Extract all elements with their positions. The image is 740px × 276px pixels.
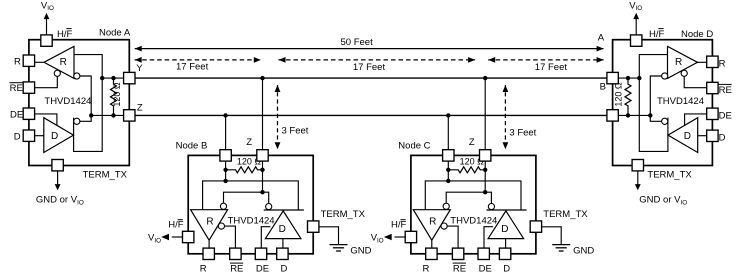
junction net2 (node C) [483, 190, 487, 194]
pin bus Z of U2 (node B) [257, 150, 268, 161]
bubble driver inverted output (node D) [662, 118, 668, 124]
pin TERM_TX of U4 (node D) [632, 160, 643, 171]
svg-text:TERM_TX: TERM_TX [321, 209, 366, 220]
pin D of U4 (node D) [707, 130, 718, 141]
wire internal net 2 to receiver inverting input and driver inverted output (node B) [224, 192, 269, 203]
wire bus pin 1 down to internal net (node C) [447, 161, 449, 181]
pin DE of U4 (node D) [707, 108, 718, 119]
pin D of U1 (node A) [23, 130, 34, 141]
junction resistor bottom on B net (node D) [626, 113, 630, 117]
svg-text:D: D [503, 264, 510, 275]
wire receiver enable to RE pin (node B) [225, 226, 236, 248]
svg-text:17 Feet: 17 Feet [353, 62, 386, 73]
svg-text:D: D [281, 264, 288, 275]
pin TERM_TX of U1 (node A) [52, 160, 63, 171]
junction net2 (node B) [260, 190, 264, 194]
power V_IO arrow into H/F pin (node D) [629, 0, 642, 35]
junction internal B net (node D) [648, 113, 652, 117]
svg-text:R: R [14, 56, 21, 67]
svg-text:TERM_TX: TERM_TX [647, 169, 692, 180]
svg-text:B: B [600, 82, 606, 93]
pin TERM_TX of U3 (node C) [530, 221, 541, 232]
svg-text:R: R [206, 216, 213, 227]
pin RE of U4 (node D) [707, 82, 718, 93]
node D THVD1424 transceiver U4 outline [613, 40, 713, 166]
svg-text:THVD1424: THVD1424 [228, 216, 275, 227]
pin R of U4 (node D) [707, 56, 718, 67]
svg-text:THVD1424: THVD1424 [44, 96, 91, 107]
power V_IO arrow into H/F pin (node B) [148, 232, 183, 244]
svg-text:THVD1424: THVD1424 [450, 216, 497, 227]
junction net1 (node C) [446, 179, 450, 183]
svg-text:TERM_TX: TERM_TX [83, 169, 128, 180]
wire stub from Z line down to Node B pin [225, 115, 227, 150]
wire receiver output to R pin (node C) [431, 240, 433, 248]
pin H/F of U4 with box [631, 35, 642, 46]
svg-text:DE: DE [10, 109, 23, 120]
pin R of U1 (node A) [23, 55, 34, 66]
pin H/F of U2 (node B) [183, 231, 194, 242]
svg-text:H/F: H/F [649, 29, 665, 40]
wire RE pin to receiver enable bubble [35, 76, 58, 87]
wire DE pin to driver enable (node B) [261, 227, 270, 249]
svg-text:Node C: Node C [398, 140, 430, 151]
wire inverting input B / driver inverted output Z to Z net [80, 76, 91, 121]
wire bus pin Z down to internal net (node C) [484, 161, 486, 192]
junction Y-line to Node C stub [483, 76, 487, 80]
pin D of U3 (node C) [499, 248, 510, 259]
wire D pin to driver input (node C) [505, 239, 507, 249]
wire driver output rail (node C) [486, 209, 526, 211]
op-amp driver D of U2 (node B) [265, 211, 301, 239]
svg-text:Z: Z [469, 137, 475, 148]
op-amp receiver R of U3 (node C) [413, 210, 450, 241]
svg-text:R: R [675, 57, 682, 68]
wire TERM_TX pin to ground (node B) [319, 227, 339, 245]
dimension arrow 3 Feet stub at Node C (dashed vertical) [503, 85, 537, 149]
op-amp driver D of U3 (node C) [488, 211, 523, 239]
svg-text:DE: DE [479, 264, 492, 275]
ground symbol (node C) [552, 245, 594, 257]
wire pin DE to driver enable (node D) [685, 114, 707, 126]
junction internal Z net [89, 113, 93, 117]
junction resistor top on A net (node D) [626, 76, 630, 80]
bubble driver inverted output (node C) [488, 204, 494, 210]
svg-text:RE: RE [719, 85, 732, 96]
junction net1 (node B) [223, 179, 227, 183]
wire internal net 1 to receiver input and driver output (node C) [425, 181, 521, 210]
svg-text:Node B: Node B [176, 140, 208, 151]
svg-text:A: A [598, 33, 605, 44]
pin RE of U3 (node C) [452, 248, 463, 259]
wire stub from Y line down to Node C pin Z [484, 78, 486, 150]
svg-text:50 Feet: 50 Feet [341, 37, 374, 48]
resistor 120 Ohm termination (node A) [111, 78, 123, 115]
svg-text:D: D [501, 224, 508, 235]
svg-text:GND or VIO: GND or VIO [639, 194, 687, 206]
svg-text:Z: Z [137, 102, 143, 113]
wire bus pin Z down to internal net (node B) [262, 161, 264, 192]
node B THVD1424 transceiver U2 outline [188, 155, 313, 253]
pin D of U2 (node B) [277, 248, 288, 259]
svg-text:3 Feet: 3 Feet [282, 125, 309, 136]
svg-text:TERM_TX: TERM_TX [543, 209, 588, 220]
svg-text:GND: GND [350, 246, 371, 257]
junction Z-line to Node C stub [446, 113, 450, 117]
power V_IO arrow into H/F pin (node C) [371, 232, 406, 244]
arrow TERM_TX to GND or V_IO (node A) [36, 171, 84, 206]
svg-text:3 Feet: 3 Feet [509, 127, 536, 138]
wire receiver enable to RE pin (node C) [447, 226, 458, 248]
junction internal A net (node D) [637, 76, 641, 80]
wire U4 receiver output to pin R [698, 61, 707, 63]
pin DE of U3 (node C) [478, 248, 489, 259]
svg-text:D: D [51, 131, 58, 142]
svg-text:THVD1424: THVD1424 [657, 96, 704, 107]
wire driver output rail (node B) [264, 209, 304, 211]
svg-text:DE: DE [256, 264, 269, 275]
junction resistor right (node C) [483, 168, 487, 172]
svg-text:GND or VIO: GND or VIO [36, 194, 84, 206]
bubble receiver inverting input B (node D) [662, 73, 668, 79]
svg-text:17 Feet: 17 Feet [176, 62, 209, 73]
wire internal A net to pin A [618, 77, 640, 79]
wire bus pin 1 down to internal net (node B) [225, 161, 227, 181]
svg-text:D: D [279, 224, 286, 235]
dimension arrow 17 Feet segment 2 (dashed) [279, 57, 476, 73]
svg-text:DE: DE [719, 110, 732, 121]
bubble receiver inverting input B [74, 73, 80, 79]
svg-text:Y: Y [136, 63, 143, 74]
svg-text:Node A: Node A [99, 27, 131, 38]
junction resistor top on Y net [111, 76, 115, 80]
wire inverting input B / driver inverted output to B net (node D) [650, 76, 661, 121]
wire bus line Z/B (bottom differential line) [135, 114, 607, 116]
junction resistor bottom on Z net [111, 113, 115, 117]
junction Y-line to Node B stub [260, 76, 264, 80]
wire receiver input A: base to internal Y net [74, 55, 103, 152]
pin RE of U2 (node B) [230, 248, 241, 259]
wire pin D to driver input (node D) [698, 135, 707, 137]
svg-text:H/F: H/F [168, 219, 184, 230]
pin TERM_TX of U2 (node B) [308, 221, 319, 232]
svg-text:H/F: H/F [391, 219, 407, 230]
svg-text:RE: RE [230, 264, 243, 275]
power V_IO arrow into H/F pin [41, 0, 54, 35]
resistor 120 Ohm termination (node B) [226, 156, 263, 172]
bubble receiver enable (node B) [218, 223, 224, 229]
pin Y of U1 (node A) [124, 72, 135, 83]
pin R of U2 (node B) [203, 248, 214, 259]
wire bus line Y/A (top differential line) [135, 77, 607, 79]
op-amp receiver R of U2 (node B) [191, 210, 228, 241]
wire stub from Z line down to Node C pin [447, 115, 449, 150]
junction resistor right (node B) [260, 168, 264, 172]
pin A of U4 (node D) [607, 72, 618, 83]
wire DE pin to driver enable (node C) [484, 227, 493, 249]
svg-text:GND: GND [573, 246, 594, 257]
junction Z-line to Node B stub [223, 113, 227, 117]
svg-text:R: R [719, 58, 726, 69]
wire internal net 1 to receiver input and driver output (node B) [203, 181, 299, 210]
ground symbol (node B) [330, 245, 372, 257]
arrow TERM_TX to GND or V_IO (node D) [635, 171, 687, 206]
svg-text:D: D [14, 132, 21, 143]
bubble receiver enable (node C) [441, 223, 447, 229]
svg-text:H/F: H/F [57, 29, 73, 40]
wire stub from Y line down to Node B pin Z [262, 78, 264, 150]
wire U1 receiver output to pin R [35, 61, 45, 63]
svg-text:120 Ω: 120 Ω [112, 82, 122, 107]
op-amp driver D of U4 (node D) [668, 118, 698, 153]
pin Z of U1 (node A) [124, 110, 135, 121]
bubble receiver enable (RE) on R triangle [54, 70, 60, 76]
wire RE pin to receiver enable bubble (node D) [684, 76, 707, 87]
pin H/F of U3 (node C) [405, 231, 416, 242]
pin bus 1 of U3 (node C) [443, 150, 454, 161]
pin DE of U1 (node A) [23, 108, 34, 119]
wire D pin to driver input (node B) [282, 239, 284, 249]
svg-text:120 Ω: 120 Ω [614, 82, 624, 107]
wire pin DE to driver enable [35, 114, 57, 126]
pin R of U3 (node C) [426, 248, 437, 259]
dimension arrow 3 Feet stub at Node B (dashed vertical) [275, 85, 309, 149]
bubble receiver inverting input (node C) [443, 203, 449, 209]
junction resistor left (node B) [223, 168, 227, 172]
pin bus 1 of U2 (node B) [220, 150, 231, 161]
svg-text:R: R [60, 57, 67, 68]
wire internal net 2 to receiver inverting input and driver inverted output (node C) [446, 192, 491, 203]
pin RE of U1 (node A) [23, 82, 34, 93]
op-amp receiver R of U4 (node D) [668, 46, 698, 78]
svg-text:Node D: Node D [681, 29, 713, 40]
pin bus Z of U3 (node C) [480, 150, 491, 161]
wire internal B net to pin B [618, 114, 651, 116]
bubble driver inverted output (node B) [266, 204, 272, 210]
svg-text:R: R [429, 216, 436, 227]
resistor 120 Ohm termination (node D) [614, 78, 631, 115]
node A THVD1424 transceiver U1 outline [29, 40, 129, 166]
op-amp driver D of U1 (node A) [44, 118, 74, 153]
bubble driver inverted output Z [74, 118, 80, 124]
wire receiver input A: base to internal A net [639, 55, 668, 152]
pin H/F of U1 with box [41, 35, 52, 46]
pin DE of U2 (node B) [255, 248, 266, 259]
svg-text:D: D [684, 131, 691, 142]
svg-text:D: D [719, 133, 726, 144]
bubble receiver enable (RE) on R triangle (node D) [681, 70, 687, 76]
node C THVD1424 transceiver U3 outline [411, 155, 536, 253]
dimension arrow 17 Feet segment 3 (dashed) [488, 57, 603, 73]
bubble receiver inverting input (node B) [220, 203, 226, 209]
wire receiver output to R pin (node B) [208, 240, 210, 248]
wire pin D to driver input [35, 135, 44, 137]
svg-text:17 Feet: 17 Feet [535, 62, 568, 73]
junction internal Y net [100, 76, 104, 80]
svg-text:R: R [200, 264, 207, 275]
wire internal Y net to pin Y [102, 77, 124, 79]
pin B of U4 (node D) [607, 110, 618, 121]
dimension arrow 17 Feet segment 1 (dashed) [135, 57, 261, 73]
dimension arrow 50 Feet overall bus length [135, 37, 604, 51]
svg-text:Z: Z [246, 137, 252, 148]
resistor 120 Ohm termination (node C) [448, 156, 485, 172]
wire internal Z net to pin Z [91, 114, 124, 116]
junction resistor left (node C) [446, 168, 450, 172]
svg-text:RE: RE [10, 83, 23, 94]
svg-text:R: R [423, 264, 430, 275]
op-amp receiver R of U1 (node A) [44, 46, 74, 78]
wire TERM_TX pin to ground (node C) [542, 227, 562, 245]
svg-text:RE: RE [453, 264, 466, 275]
